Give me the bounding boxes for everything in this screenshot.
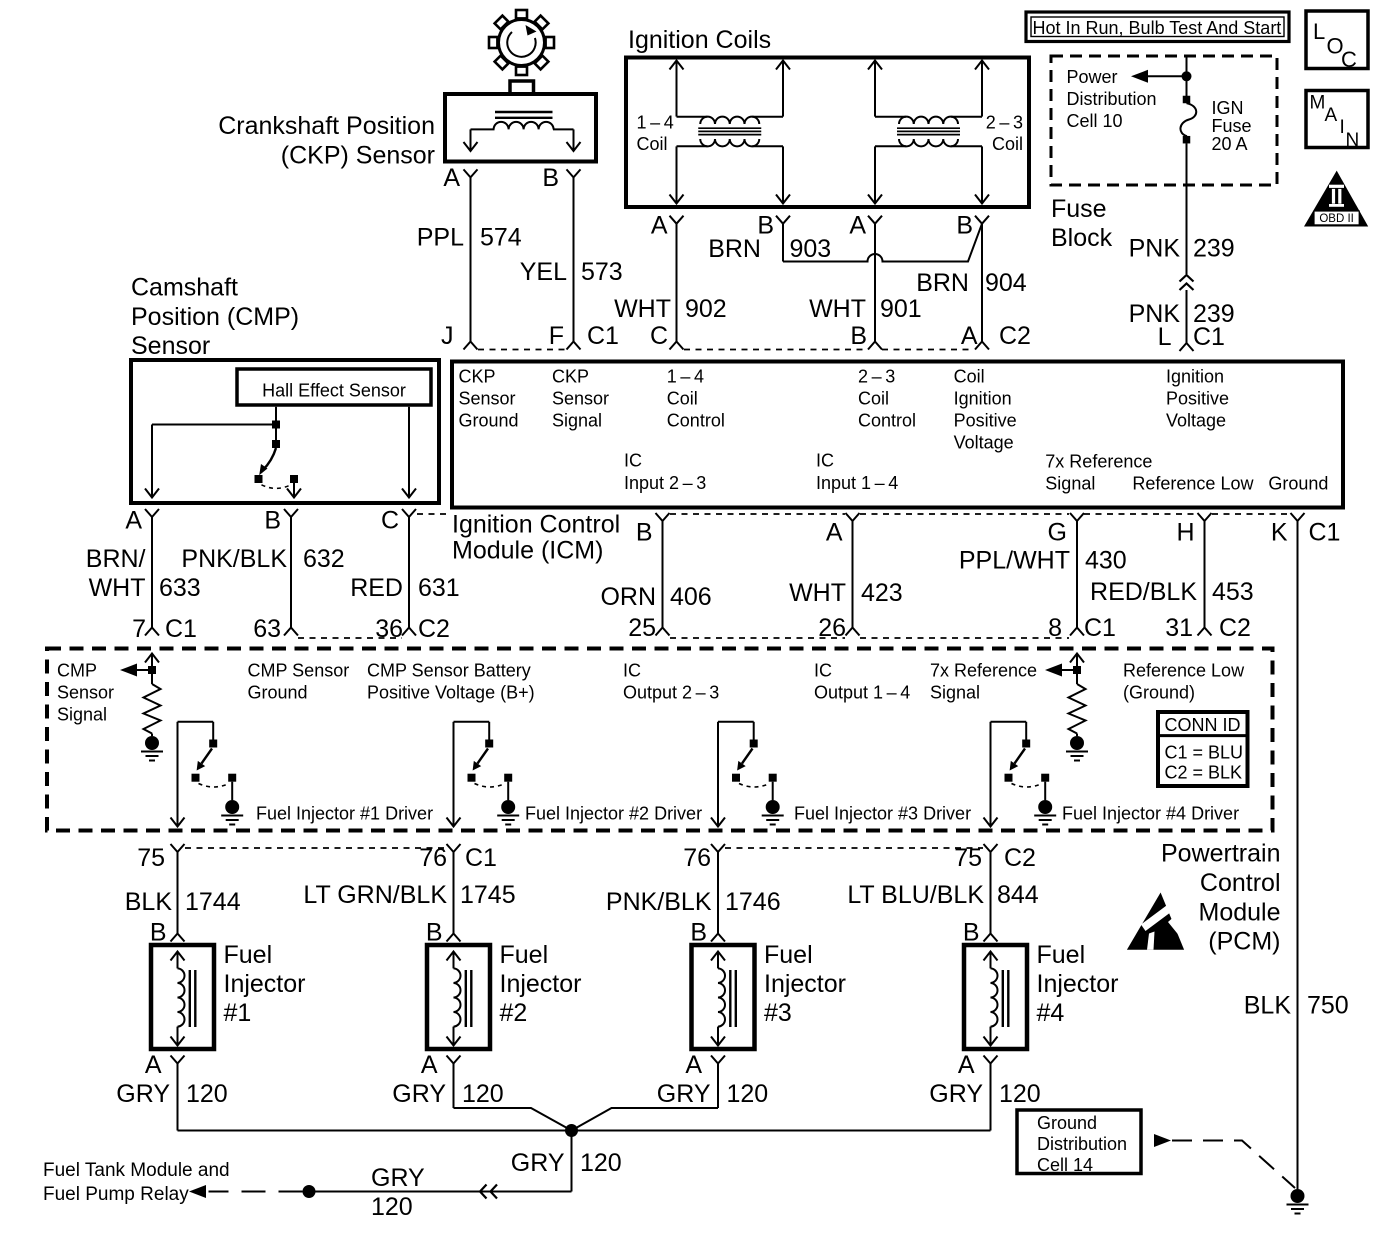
svg-text:C2: C2: [1219, 614, 1251, 642]
svg-text:Fuel Pump Relay: Fuel Pump Relay: [43, 1184, 189, 1205]
svg-text:1745: 1745: [460, 881, 516, 909]
svg-text:Injector: Injector: [1037, 970, 1119, 998]
svg-text:N: N: [1346, 130, 1360, 151]
svg-text:Camshaft: Camshaft: [131, 274, 238, 302]
svg-text:Positive: Positive: [954, 410, 1017, 430]
svg-text:Control: Control: [1200, 869, 1281, 897]
svg-text:CMP Sensor Battery: CMP Sensor Battery: [367, 661, 531, 681]
svg-text:239: 239: [1193, 235, 1235, 263]
svg-text:75: 75: [954, 844, 982, 872]
svg-text:A: A: [685, 1051, 702, 1079]
svg-text:Positive Voltage (B+): Positive Voltage (B+): [367, 683, 535, 703]
svg-text:Cell 10: Cell 10: [1067, 111, 1123, 131]
svg-text:A: A: [961, 322, 978, 350]
svg-text:IC: IC: [623, 661, 641, 681]
svg-text:Sensor: Sensor: [459, 388, 516, 408]
svg-text:A: A: [1325, 105, 1338, 126]
svg-text:B: B: [542, 164, 559, 192]
svg-text:Voltage: Voltage: [1166, 410, 1226, 430]
svg-text:120: 120: [462, 1080, 504, 1108]
svg-text:F: F: [549, 322, 564, 350]
svg-text:Signal: Signal: [552, 410, 602, 430]
svg-text:63: 63: [253, 615, 281, 643]
svg-text:Output 1 – 4: Output 1 – 4: [814, 683, 910, 703]
svg-text:903: 903: [790, 235, 832, 263]
svg-text:C1: C1: [587, 322, 619, 350]
svg-text:Module: Module: [1199, 898, 1281, 926]
svg-text:PNK/BLK: PNK/BLK: [606, 888, 712, 916]
svg-text:31: 31: [1165, 614, 1193, 642]
svg-text:Ground: Ground: [1268, 473, 1328, 493]
svg-text:120: 120: [580, 1149, 622, 1177]
svg-text:Sensor: Sensor: [131, 332, 210, 360]
svg-text:Ground: Ground: [248, 683, 308, 703]
svg-text:25: 25: [628, 614, 656, 642]
svg-text:C1: C1: [165, 615, 197, 643]
svg-text:CMP: CMP: [57, 661, 97, 681]
svg-text:76: 76: [683, 844, 711, 872]
svg-text:Signal: Signal: [1045, 473, 1095, 493]
svg-text:902: 902: [685, 295, 727, 323]
svg-text:ORN: ORN: [600, 583, 656, 611]
svg-text:C2 = BLK: C2 = BLK: [1165, 762, 1243, 782]
svg-text:Powertrain: Powertrain: [1161, 840, 1281, 868]
svg-text:PNK: PNK: [1129, 300, 1181, 328]
svg-text:Fuel Injector #1 Driver: Fuel Injector #1 Driver: [256, 804, 433, 824]
svg-text:C: C: [1341, 47, 1357, 72]
svg-text:Positive: Positive: [1166, 388, 1229, 408]
svg-text:631: 631: [418, 574, 460, 602]
svg-text:Fuel: Fuel: [764, 941, 813, 969]
svg-text:RED/BLK: RED/BLK: [1090, 578, 1197, 606]
svg-text:7x Reference: 7x Reference: [1045, 452, 1152, 472]
svg-text:1744: 1744: [185, 888, 241, 916]
svg-text:Fuse: Fuse: [1212, 116, 1252, 136]
svg-text:7: 7: [132, 615, 146, 643]
svg-text:20 A: 20 A: [1212, 134, 1248, 154]
svg-text:GRY: GRY: [116, 1080, 170, 1108]
svg-text:A: A: [651, 212, 668, 240]
svg-text:Ignition Coils: Ignition Coils: [628, 26, 771, 54]
svg-text:Ignition Control: Ignition Control: [452, 510, 620, 538]
svg-text:Ground: Ground: [1037, 1113, 1097, 1133]
svg-text:Coil: Coil: [992, 134, 1023, 154]
svg-text:B: B: [426, 919, 443, 947]
svg-text:IC: IC: [624, 451, 642, 471]
svg-text:B: B: [956, 212, 973, 240]
svg-text:120: 120: [999, 1080, 1041, 1108]
svg-text:Coil: Coil: [667, 388, 698, 408]
svg-text:PPL: PPL: [417, 224, 464, 252]
svg-text:OBD II: OBD II: [1319, 213, 1354, 225]
svg-text:GRY: GRY: [371, 1164, 425, 1192]
svg-text:Injector: Injector: [224, 970, 306, 998]
svg-text:WHT: WHT: [809, 295, 866, 323]
svg-text:406: 406: [670, 583, 712, 611]
svg-text:G: G: [1048, 519, 1067, 547]
svg-text:2 – 3: 2 – 3: [986, 113, 1023, 133]
svg-text:Hall Effect Sensor: Hall Effect Sensor: [262, 381, 406, 401]
svg-text:Injector: Injector: [764, 970, 846, 998]
svg-text:Fuel: Fuel: [224, 941, 273, 969]
svg-text:7x Reference: 7x Reference: [930, 661, 1037, 681]
svg-text:120: 120: [186, 1080, 228, 1108]
svg-text:C1: C1: [1309, 519, 1341, 547]
svg-text:A: A: [125, 507, 142, 535]
svg-text:GRY: GRY: [657, 1080, 711, 1108]
svg-text:Signal: Signal: [57, 705, 107, 725]
svg-text:B: B: [150, 919, 167, 947]
svg-text:Coil: Coil: [858, 388, 889, 408]
svg-text:L: L: [1313, 19, 1325, 44]
svg-text:423: 423: [861, 579, 903, 607]
svg-text:Hot In Run, Bulb Test And Star: Hot In Run, Bulb Test And Start: [1033, 18, 1282, 38]
svg-text:K: K: [1271, 519, 1288, 547]
svg-text:GRY: GRY: [511, 1149, 565, 1177]
svg-text:IC: IC: [814, 661, 832, 681]
svg-text:453: 453: [1212, 578, 1254, 606]
svg-text:1 – 4: 1 – 4: [637, 113, 674, 133]
svg-text:Ground: Ground: [459, 410, 519, 430]
svg-text:#2: #2: [500, 999, 528, 1027]
svg-text:1746: 1746: [725, 888, 781, 916]
svg-text:IGN: IGN: [1212, 98, 1244, 118]
svg-text:#3: #3: [764, 999, 792, 1027]
svg-text:C1 = BLU: C1 = BLU: [1165, 742, 1244, 762]
svg-text:Signal: Signal: [930, 683, 980, 703]
svg-text:M: M: [1310, 93, 1326, 114]
svg-text:GRY: GRY: [929, 1080, 983, 1108]
svg-text:C: C: [381, 507, 399, 535]
svg-text:Power: Power: [1067, 67, 1118, 87]
svg-text:BLK: BLK: [125, 888, 173, 916]
svg-text:BLK: BLK: [1244, 992, 1292, 1020]
svg-text:C: C: [650, 322, 668, 350]
svg-text:Crankshaft Position: Crankshaft Position: [218, 112, 435, 140]
svg-text:I: I: [1340, 117, 1345, 138]
svg-text:BRN/: BRN/: [86, 545, 146, 573]
svg-text:Position (CMP): Position (CMP): [131, 303, 299, 331]
svg-text:A: A: [145, 1051, 162, 1079]
svg-text:750: 750: [1307, 992, 1349, 1020]
svg-text:BRN: BRN: [916, 269, 969, 297]
svg-text:IC: IC: [816, 451, 834, 471]
svg-text:Fuel Tank Module and: Fuel Tank Module and: [43, 1160, 230, 1181]
svg-text:B: B: [636, 519, 653, 547]
svg-text:LT BLU/BLK: LT BLU/BLK: [847, 881, 984, 909]
svg-text:C1: C1: [1084, 614, 1116, 642]
svg-text:A: A: [421, 1051, 438, 1079]
svg-text:A: A: [849, 212, 866, 240]
svg-text:C2: C2: [1004, 844, 1036, 872]
svg-text:GRY: GRY: [392, 1080, 446, 1108]
svg-text:B: B: [963, 919, 980, 947]
svg-text:Module (ICM): Module (ICM): [452, 537, 603, 565]
svg-text:B: B: [264, 507, 281, 535]
svg-text:Fuel Injector #4 Driver: Fuel Injector #4 Driver: [1062, 804, 1239, 824]
svg-text:75: 75: [137, 844, 165, 872]
svg-text:Coil: Coil: [637, 134, 668, 154]
svg-text:Reference Low: Reference Low: [1123, 661, 1245, 681]
svg-text:PNK/BLK: PNK/BLK: [181, 545, 287, 573]
svg-text:Input 2 – 3: Input 2 – 3: [624, 473, 706, 493]
svg-text:CKP: CKP: [459, 366, 496, 386]
svg-text:PNK: PNK: [1129, 235, 1181, 263]
svg-text:Ignition: Ignition: [1166, 366, 1224, 386]
svg-text:Fuel: Fuel: [500, 941, 549, 969]
svg-text:430: 430: [1085, 547, 1127, 575]
svg-text:(PCM): (PCM): [1208, 928, 1280, 956]
svg-text:632: 632: [303, 545, 345, 573]
svg-text:Control: Control: [858, 410, 916, 430]
svg-text:B: B: [850, 322, 867, 350]
svg-text:CKP: CKP: [552, 366, 589, 386]
svg-text:Distribution: Distribution: [1067, 89, 1157, 109]
svg-text:Cell 14: Cell 14: [1037, 1155, 1093, 1175]
svg-text:LT GRN/BLK: LT GRN/BLK: [303, 881, 447, 909]
svg-text:Output 2 – 3: Output 2 – 3: [623, 683, 719, 703]
svg-text:CONN ID: CONN ID: [1165, 715, 1241, 735]
svg-text:Injector: Injector: [500, 970, 582, 998]
svg-text:844: 844: [997, 881, 1039, 909]
svg-text:633: 633: [159, 574, 201, 602]
svg-text:Sensor: Sensor: [57, 683, 114, 703]
svg-text:(CKP) Sensor: (CKP) Sensor: [281, 142, 435, 170]
svg-text:Input 1 – 4: Input 1 – 4: [816, 473, 898, 493]
svg-text:Fuel Injector #2 Driver: Fuel Injector #2 Driver: [525, 804, 702, 824]
svg-text:A: A: [826, 519, 843, 547]
svg-text:574: 574: [480, 224, 522, 252]
svg-text:C1: C1: [465, 844, 497, 872]
svg-text:WHT: WHT: [789, 579, 846, 607]
svg-text:Control: Control: [667, 410, 725, 430]
svg-text:L: L: [1158, 323, 1172, 351]
svg-text:B: B: [690, 919, 707, 947]
svg-text:Distribution: Distribution: [1037, 1134, 1127, 1154]
svg-text:Coil: Coil: [954, 366, 985, 386]
svg-text:Sensor: Sensor: [552, 388, 609, 408]
svg-text:A: A: [443, 164, 460, 192]
svg-text:120: 120: [371, 1193, 413, 1221]
svg-text:WHT: WHT: [614, 295, 671, 323]
svg-text:76: 76: [419, 844, 447, 872]
svg-text:120: 120: [727, 1080, 769, 1108]
svg-text:RED: RED: [350, 574, 403, 602]
svg-text:#1: #1: [224, 999, 252, 1027]
svg-text:Ignition: Ignition: [954, 388, 1012, 408]
svg-text:#4: #4: [1037, 999, 1065, 1027]
svg-text:C2: C2: [418, 615, 450, 643]
svg-text:C2: C2: [999, 322, 1031, 350]
svg-text:904: 904: [985, 269, 1027, 297]
svg-text:573: 573: [581, 258, 623, 286]
svg-text:C1: C1: [1193, 323, 1225, 351]
svg-text:CMP Sensor: CMP Sensor: [248, 661, 350, 681]
svg-text:2 – 3: 2 – 3: [858, 366, 895, 386]
svg-text:PPL/WHT: PPL/WHT: [959, 547, 1070, 575]
svg-text:1 – 4: 1 – 4: [667, 366, 704, 386]
svg-text:Fuel Injector #3 Driver: Fuel Injector #3 Driver: [794, 804, 971, 824]
svg-text:Fuse: Fuse: [1051, 195, 1107, 223]
svg-text:Fuel: Fuel: [1037, 941, 1086, 969]
svg-text:Voltage: Voltage: [954, 432, 1014, 452]
svg-text:Reference Low: Reference Low: [1132, 473, 1254, 493]
svg-text:YEL: YEL: [520, 258, 567, 286]
svg-text:H: H: [1176, 519, 1194, 547]
svg-text:Block: Block: [1051, 224, 1113, 252]
svg-text:J: J: [441, 322, 454, 350]
svg-text:A: A: [958, 1051, 975, 1079]
svg-text:(Ground): (Ground): [1123, 683, 1195, 703]
svg-text:WHT: WHT: [89, 574, 146, 602]
svg-text:BRN: BRN: [708, 235, 761, 263]
svg-text:901: 901: [880, 295, 922, 323]
